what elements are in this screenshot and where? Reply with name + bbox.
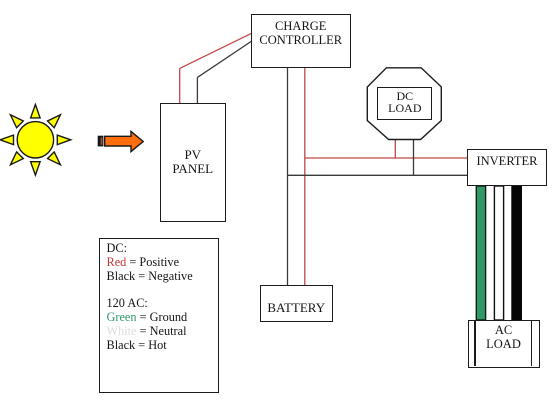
inverter box INVERTER	[467, 149, 547, 186]
wire black AC hot inverter to AC load	[512, 186, 522, 320]
battery box BATTERY	[260, 285, 333, 322]
charge controller box CHARGE CONTROLLER	[251, 14, 351, 68]
wire black PV- vertical	[196, 77, 198, 103]
PV panel box PV PANEL	[160, 103, 226, 222]
wire red DC bus horizontal to inverter	[305, 157, 468, 159]
DC load inner box DC LOAD	[377, 87, 432, 121]
sun	[0, 105, 71, 176]
wire green AC ground inverter to AC load	[476, 186, 485, 320]
wire red DC load drop	[394, 139, 396, 158]
wire black DC bus horizontal to inverter	[288, 174, 469, 176]
wire black DC load drop	[413, 139, 415, 175]
legend box wire color key	[99, 238, 219, 393]
wire black PV- diagonal to charge controller	[197, 41, 251, 77]
wire red PV+ vertical	[179, 68, 181, 103]
sunlight arrow	[98, 131, 144, 151]
AC load inner left line	[474, 321, 475, 366]
AC load inner right line	[531, 321, 532, 366]
AC load box AC LOAD	[468, 320, 540, 368]
wire red charge controller to battery vertical	[304, 67, 306, 285]
DC load octagon outline	[367, 68, 441, 140]
wire black charge controller to battery vertical	[287, 67, 289, 285]
wire white AC neutral inverter to AC load	[494, 186, 503, 320]
wire red PV+ diagonal to charge controller	[180, 33, 252, 68]
